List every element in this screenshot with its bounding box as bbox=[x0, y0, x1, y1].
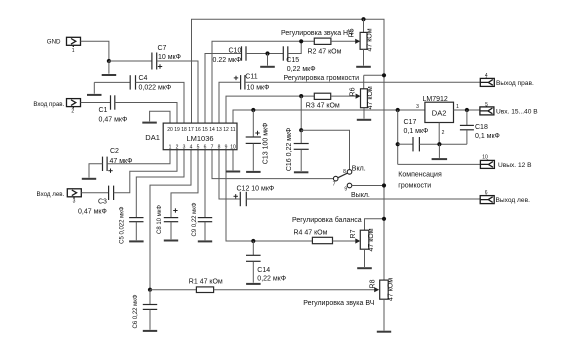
svg-text:5: 5 bbox=[485, 102, 488, 108]
connector X2 right input bbox=[33, 99, 80, 115]
svg-text:13: 13 bbox=[216, 127, 222, 133]
wire pin 14 to R2 bbox=[212, 41, 314, 123]
label volume control bbox=[284, 75, 360, 82]
svg-text:8: 8 bbox=[218, 144, 221, 150]
svg-text:2: 2 bbox=[176, 144, 179, 150]
voltage regulator DA2 LM7912 bbox=[416, 96, 459, 136]
svg-text:2: 2 bbox=[442, 130, 445, 136]
svg-text:1: 1 bbox=[169, 144, 172, 150]
svg-text:9: 9 bbox=[344, 186, 347, 192]
wire DA2 pin 2 stem bbox=[438, 123, 440, 145]
wire C3 to pin 2 bbox=[114, 150, 177, 193]
wire pin 12 to R3 bbox=[226, 96, 314, 123]
svg-text:R1 47 кОм: R1 47 кОм bbox=[189, 279, 223, 286]
svg-text:C7: C7 bbox=[158, 45, 167, 52]
wire R4 to R7 wiper bbox=[333, 238, 361, 243]
svg-text:C1: C1 bbox=[99, 107, 108, 114]
node A junction bbox=[107, 59, 111, 63]
ground at R5 bbox=[356, 49, 371, 67]
wire R2 to R5 wiper bbox=[331, 39, 360, 44]
wire pin 20 to ground bbox=[150, 111, 170, 123]
svg-text:громкости: громкости bbox=[398, 182, 431, 189]
svg-text:20: 20 bbox=[167, 127, 173, 133]
svg-text:LM1036: LM1036 bbox=[186, 134, 213, 143]
svg-text:12: 12 bbox=[223, 127, 229, 133]
wire node D to node E bbox=[300, 96, 302, 130]
svg-text:9: 9 bbox=[225, 144, 228, 150]
node F junction C13 top bbox=[251, 108, 255, 112]
potentiometer R6 bbox=[350, 75, 375, 109]
capacitor C4 bbox=[130, 75, 171, 92]
wire C17 left bbox=[398, 143, 413, 145]
svg-text:5: 5 bbox=[197, 144, 200, 150]
wire R6 top to rail bbox=[364, 74, 384, 76]
capacitor C8 bbox=[157, 205, 178, 241]
node I junction C14 top bbox=[251, 239, 255, 243]
svg-text:C3: C3 bbox=[98, 199, 107, 206]
svg-text:Регулировка баланса: Регулировка баланса bbox=[292, 216, 362, 224]
svg-text:Компенсация: Компенсация bbox=[398, 171, 442, 178]
resistor R1 bbox=[189, 279, 223, 293]
label balance control bbox=[292, 216, 362, 224]
svg-text:0,22 мкФ: 0,22 мкФ bbox=[257, 275, 286, 282]
switch contact 8 on bbox=[343, 166, 366, 176]
svg-text:15: 15 bbox=[202, 127, 208, 133]
node H junction R5 top bbox=[361, 17, 365, 21]
node L junction bottom rail bbox=[148, 288, 152, 292]
ground for C4 bbox=[87, 82, 102, 95]
node O junction C17 left bbox=[396, 142, 400, 146]
label bass control bbox=[281, 30, 353, 37]
svg-text:Вкл.: Вкл. bbox=[352, 166, 366, 173]
potentiometer R5 bbox=[348, 19, 373, 51]
svg-text:C4: C4 bbox=[139, 75, 148, 82]
connector X5 supply input bbox=[480, 102, 538, 115]
wire C7 to pin 16 bbox=[157, 61, 198, 123]
resistor R4 bbox=[294, 230, 333, 244]
wire to connector 10 bbox=[398, 163, 481, 165]
wire pin 11 to DA2 input bbox=[233, 110, 425, 123]
wire C1 to pin 19 bbox=[115, 103, 177, 124]
wire ground to C4 bbox=[94, 81, 130, 83]
label loudness compensation bbox=[398, 171, 442, 189]
wire C2 to pin 1 bbox=[107, 150, 170, 164]
resistor R3 bbox=[306, 93, 340, 109]
capacitor C14 bbox=[246, 241, 286, 284]
svg-text:10 мкФ: 10 мкФ bbox=[158, 54, 181, 61]
node P junction bbox=[437, 142, 441, 146]
wire C4 to pin 18 bbox=[136, 82, 185, 123]
connector X6 left output bbox=[480, 190, 530, 204]
svg-text:R3 47 кОм: R3 47 кОм bbox=[306, 102, 340, 109]
svg-text:16: 16 bbox=[195, 127, 201, 133]
svg-text:DA1: DA1 bbox=[145, 133, 160, 142]
svg-text:3: 3 bbox=[416, 104, 419, 110]
node C junction bbox=[299, 39, 303, 43]
svg-text:R2 47 кОм: R2 47 кОм bbox=[308, 48, 342, 55]
node G junction bbox=[382, 73, 386, 77]
connector X3 left input bbox=[37, 189, 82, 205]
svg-text:0,022 мкФ: 0,022 мкФ bbox=[139, 85, 172, 92]
svg-text:47 кОм: 47 кОм bbox=[367, 86, 374, 109]
connector X10 supply output bbox=[480, 155, 532, 170]
svg-text:C6 0,22 мкФ: C6 0,22 мкФ bbox=[133, 294, 139, 328]
node M junction DA2 input bbox=[396, 108, 400, 112]
potentiometer R7 bbox=[350, 228, 375, 251]
capacitor C16 bbox=[286, 128, 309, 173]
svg-text:0,1 мкФ: 0,1 мкФ bbox=[404, 128, 429, 135]
svg-text:7: 7 bbox=[333, 181, 336, 187]
svg-text:0,22 мкФ: 0,22 мкФ bbox=[287, 66, 316, 73]
capacitor C2 bbox=[103, 148, 133, 173]
wire pin 8 to C12 bbox=[219, 150, 240, 199]
ground at R6 bbox=[357, 108, 371, 120]
svg-text:0,47 мкФ: 0,47 мкФ bbox=[78, 208, 107, 215]
wire node A to C7 bbox=[109, 60, 152, 62]
node K junction bbox=[382, 217, 386, 221]
capacitor C13 bbox=[246, 110, 270, 172]
svg-text:R4 47 кОм: R4 47 кОм bbox=[294, 230, 328, 237]
wire connector 2 to C1 bbox=[81, 102, 111, 104]
wire R7 top to rail bbox=[365, 219, 385, 230]
ground at R8 bbox=[377, 299, 391, 332]
ground at pin 10 bbox=[226, 150, 240, 172]
wire node E to switch contact 8 bbox=[301, 130, 349, 169]
svg-text:0,47 мкФ: 0,47 мкФ bbox=[99, 116, 128, 123]
svg-text:C5 0,022 мкФ: C5 0,022 мкФ bbox=[119, 206, 125, 244]
ground at pin 20 bbox=[142, 122, 157, 124]
label treble control bbox=[303, 300, 374, 307]
svg-text:DA2: DA2 bbox=[432, 109, 447, 118]
svg-text:1: 1 bbox=[72, 48, 75, 54]
wire pin 9 to R4 bbox=[226, 150, 312, 241]
svg-text:R5: R5 bbox=[348, 28, 355, 37]
svg-text:47 кОм: 47 кОм bbox=[367, 28, 374, 51]
svg-text:47 кОм: 47 кОм bbox=[368, 228, 375, 251]
svg-text:Регулировка звука ВЧ: Регулировка звука ВЧ bbox=[303, 300, 374, 307]
node J junction bbox=[382, 183, 386, 187]
svg-text:R7: R7 bbox=[350, 229, 357, 238]
svg-text:14: 14 bbox=[209, 127, 215, 133]
svg-text:4: 4 bbox=[190, 144, 193, 150]
svg-text:47 кОм: 47 кОм bbox=[387, 278, 394, 301]
wire pin 7 to switch bbox=[212, 150, 333, 179]
svg-text:C16 0,22 мкФ: C16 0,22 мкФ bbox=[286, 128, 293, 172]
svg-text:C14: C14 bbox=[257, 267, 270, 274]
svg-text:Uвых. 12 В: Uвых. 12 В bbox=[498, 162, 532, 169]
wire pin 4 to bottom rail bbox=[150, 150, 191, 290]
wire pin 6 to C9 bbox=[204, 150, 206, 218]
ground at R7 bbox=[357, 249, 372, 268]
ground at node A bbox=[102, 61, 117, 75]
capacitor C9 bbox=[192, 202, 212, 241]
wire C15 to R2 wire bbox=[288, 41, 301, 53]
svg-text:GND: GND bbox=[47, 39, 61, 46]
capacitor C3 bbox=[78, 186, 114, 216]
potentiometer R8 bbox=[369, 278, 394, 301]
wire node M down to C17 row bbox=[397, 110, 399, 164]
wire C12 to connector 6 bbox=[246, 198, 480, 200]
svg-text:Выход прав.: Выход прав. bbox=[496, 80, 534, 87]
wire connector 3 to C3 bbox=[81, 192, 108, 194]
svg-text:Регулировка звука НЧ: Регулировка звука НЧ bbox=[281, 30, 353, 37]
svg-text:Вход прав.: Вход прав. bbox=[33, 101, 64, 108]
wire pin 3 to C5 bbox=[136, 150, 184, 218]
svg-text:R6: R6 bbox=[350, 87, 357, 96]
svg-text:Выкл.: Выкл. bbox=[351, 192, 370, 199]
svg-text:C13 100 мкФ: C13 100 мкФ bbox=[262, 123, 269, 165]
connector X4 right output bbox=[480, 73, 534, 87]
wire C10 to C15 bbox=[246, 53, 283, 55]
ground at DA2 bbox=[432, 144, 448, 159]
svg-text:0,1 мкФ: 0,1 мкФ bbox=[475, 133, 500, 140]
wire Vref rail pin 17 top rail down right side bbox=[192, 19, 385, 280]
capacitor C15 bbox=[283, 46, 315, 73]
resistor R2 bbox=[308, 38, 342, 55]
switch contact 9 off bbox=[344, 183, 370, 199]
capacitor C10 bbox=[213, 46, 247, 64]
svg-text:R8: R8 bbox=[369, 279, 376, 288]
svg-text:C11: C11 bbox=[245, 73, 257, 80]
node N junction bbox=[465, 108, 469, 112]
wire GND connector to node A bbox=[81, 41, 109, 61]
svg-text:10: 10 bbox=[230, 144, 236, 150]
connector X1 GND bbox=[47, 37, 81, 54]
svg-text:Uвх. 15...40 В: Uвх. 15...40 В bbox=[496, 108, 538, 115]
svg-text:C17: C17 bbox=[404, 119, 417, 126]
svg-text:C8 10 мкФ: C8 10 мкФ bbox=[157, 205, 163, 234]
svg-text:LM7912: LM7912 bbox=[423, 96, 448, 103]
svg-text:19: 19 bbox=[174, 127, 180, 133]
capacitor C17 bbox=[404, 119, 429, 151]
capacitor C1 bbox=[99, 95, 128, 123]
svg-text:Вход лев.: Вход лев. bbox=[37, 191, 65, 198]
svg-text:17: 17 bbox=[188, 127, 194, 133]
wire pin 5 to C8 bbox=[171, 150, 198, 218]
svg-text:3: 3 bbox=[73, 199, 76, 205]
ground for C2 bbox=[82, 164, 103, 179]
svg-text:C2: C2 bbox=[110, 148, 119, 155]
capacitor C6 bbox=[133, 290, 157, 331]
svg-text:Выход лев.: Выход лев. bbox=[496, 197, 531, 204]
capacitor C11 bbox=[234, 73, 270, 91]
switch common contact 7 bbox=[333, 176, 338, 187]
wire bottom rail to R8 wiper bbox=[214, 287, 380, 292]
svg-text:6: 6 bbox=[204, 144, 207, 150]
svg-text:10 мкФ: 10 мкФ bbox=[247, 84, 270, 91]
node D junction bbox=[299, 94, 303, 98]
wire contact 9 to rail bbox=[352, 185, 384, 187]
wire R3 to R6 wiper bbox=[331, 94, 361, 99]
svg-text:C12 10 мкФ: C12 10 мкФ bbox=[237, 186, 275, 193]
svg-text:C10: C10 bbox=[229, 48, 242, 55]
svg-text:C9 0,22 мкФ: C9 0,22 мкФ bbox=[192, 202, 198, 236]
switch lever bbox=[338, 173, 347, 178]
wire DA2 output to connector 5 bbox=[454, 109, 480, 111]
svg-text:Регулировка громкости: Регулировка громкости bbox=[284, 75, 360, 82]
capacitor C12 bbox=[234, 186, 275, 207]
wire C11 to connector 4 bbox=[245, 81, 480, 83]
svg-text:2: 2 bbox=[71, 109, 74, 115]
node E junction bbox=[299, 128, 303, 132]
wire bottom rail left bbox=[150, 289, 196, 291]
wire pin 13 to C11 bbox=[219, 82, 240, 123]
op-amp DA1 LM1036 bbox=[145, 123, 237, 150]
svg-text:C18: C18 bbox=[475, 124, 488, 131]
node B junction ground stub bbox=[260, 51, 275, 66]
wire pin 15 to C10 bbox=[205, 54, 241, 124]
capacitor C7 bbox=[152, 45, 181, 70]
wire C17 to DA2 pin 2 bbox=[419, 143, 467, 145]
svg-text:7: 7 bbox=[211, 144, 214, 150]
svg-text:1: 1 bbox=[456, 104, 459, 110]
capacitor C18 bbox=[460, 110, 500, 144]
capacitor C5 bbox=[119, 206, 143, 244]
svg-text:3: 3 bbox=[183, 144, 186, 150]
svg-text:18: 18 bbox=[181, 127, 187, 133]
svg-text:11: 11 bbox=[230, 127, 235, 133]
svg-text:0.22 мкФ: 0.22 мкФ bbox=[213, 57, 242, 64]
svg-text:C15: C15 bbox=[286, 57, 299, 64]
